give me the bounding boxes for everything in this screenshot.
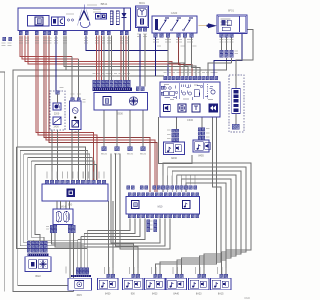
svg-text:MC41: MC41 <box>101 154 108 156</box>
svg-text:900: 900 <box>68 203 73 207</box>
svg-text:CA00: CA00 <box>171 11 178 15</box>
svg-text:8455: 8455 <box>198 155 204 158</box>
svg-text:8A15: 8A15 <box>218 292 224 295</box>
svg-text:C600: C600 <box>187 118 194 122</box>
svg-text:8022: 8022 <box>35 275 41 278</box>
svg-text:MC31: MC31 <box>127 154 134 156</box>
svg-text:8430: 8430 <box>105 292 111 295</box>
svg-text:200: 200 <box>74 131 79 134</box>
svg-text:8001: 8001 <box>139 1 145 5</box>
svg-text:8300: 8300 <box>117 112 123 116</box>
svg-text:MC40: MC40 <box>114 154 121 156</box>
svg-text:8423: 8423 <box>152 292 158 295</box>
svg-text:900: 900 <box>131 292 136 295</box>
svg-text:MC41: MC41 <box>140 154 147 156</box>
svg-text:8A30: 8A30 <box>171 157 177 160</box>
svg-text:8F01: 8F01 <box>228 9 234 13</box>
svg-text:8A14: 8A14 <box>60 206 66 209</box>
svg-text:1515: 1515 <box>76 294 82 297</box>
svg-text:8A40: 8A40 <box>173 292 179 295</box>
svg-text:BB11: BB11 <box>101 2 108 6</box>
svg-text:2200: 2200 <box>54 113 60 116</box>
svg-text:8A23: 8A23 <box>196 292 202 295</box>
svg-text:M10: M10 <box>158 206 163 209</box>
svg-text:1400: 1400 <box>53 126 59 129</box>
